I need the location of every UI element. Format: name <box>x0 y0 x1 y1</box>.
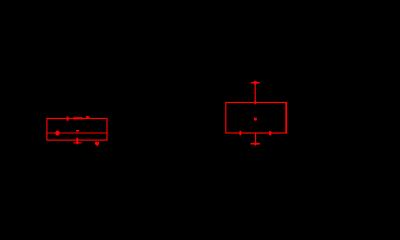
junction dot on U2 top edge <box>254 100 258 104</box>
component U2 body (right box) <box>226 103 286 134</box>
value label mark above divider <box>76 130 79 132</box>
power symbol bar (lower) <box>251 143 260 145</box>
label bump step on U1 top edge <box>89 117 90 119</box>
label bump on U1 top edge <box>86 116 89 119</box>
VCC bar center blob <box>254 81 257 84</box>
thick right edge of U2 <box>285 102 287 134</box>
pin cross on U1 top edge <box>67 117 69 121</box>
power bar on pin 1 stub <box>73 142 81 143</box>
net arrow marker below U1 <box>95 142 99 147</box>
center dot of U2 <box>254 118 257 121</box>
component U1 body (left box) <box>47 119 107 141</box>
wire from U2 bottom to lower power bar <box>255 133 257 144</box>
power symbol VCC bar <box>251 82 260 84</box>
pin cross left on U2 bottom edge <box>239 131 241 136</box>
wire from VCC bar to U2 top <box>254 83 256 103</box>
label mark on U1 top edge <box>73 117 82 119</box>
pin cross right on U2 bottom edge <box>269 131 271 135</box>
junction dot on divider <box>55 130 59 135</box>
lower bar center blob <box>253 142 257 146</box>
pin 1 stub below U1 <box>76 138 78 145</box>
divider line inside U1 <box>47 132 107 134</box>
